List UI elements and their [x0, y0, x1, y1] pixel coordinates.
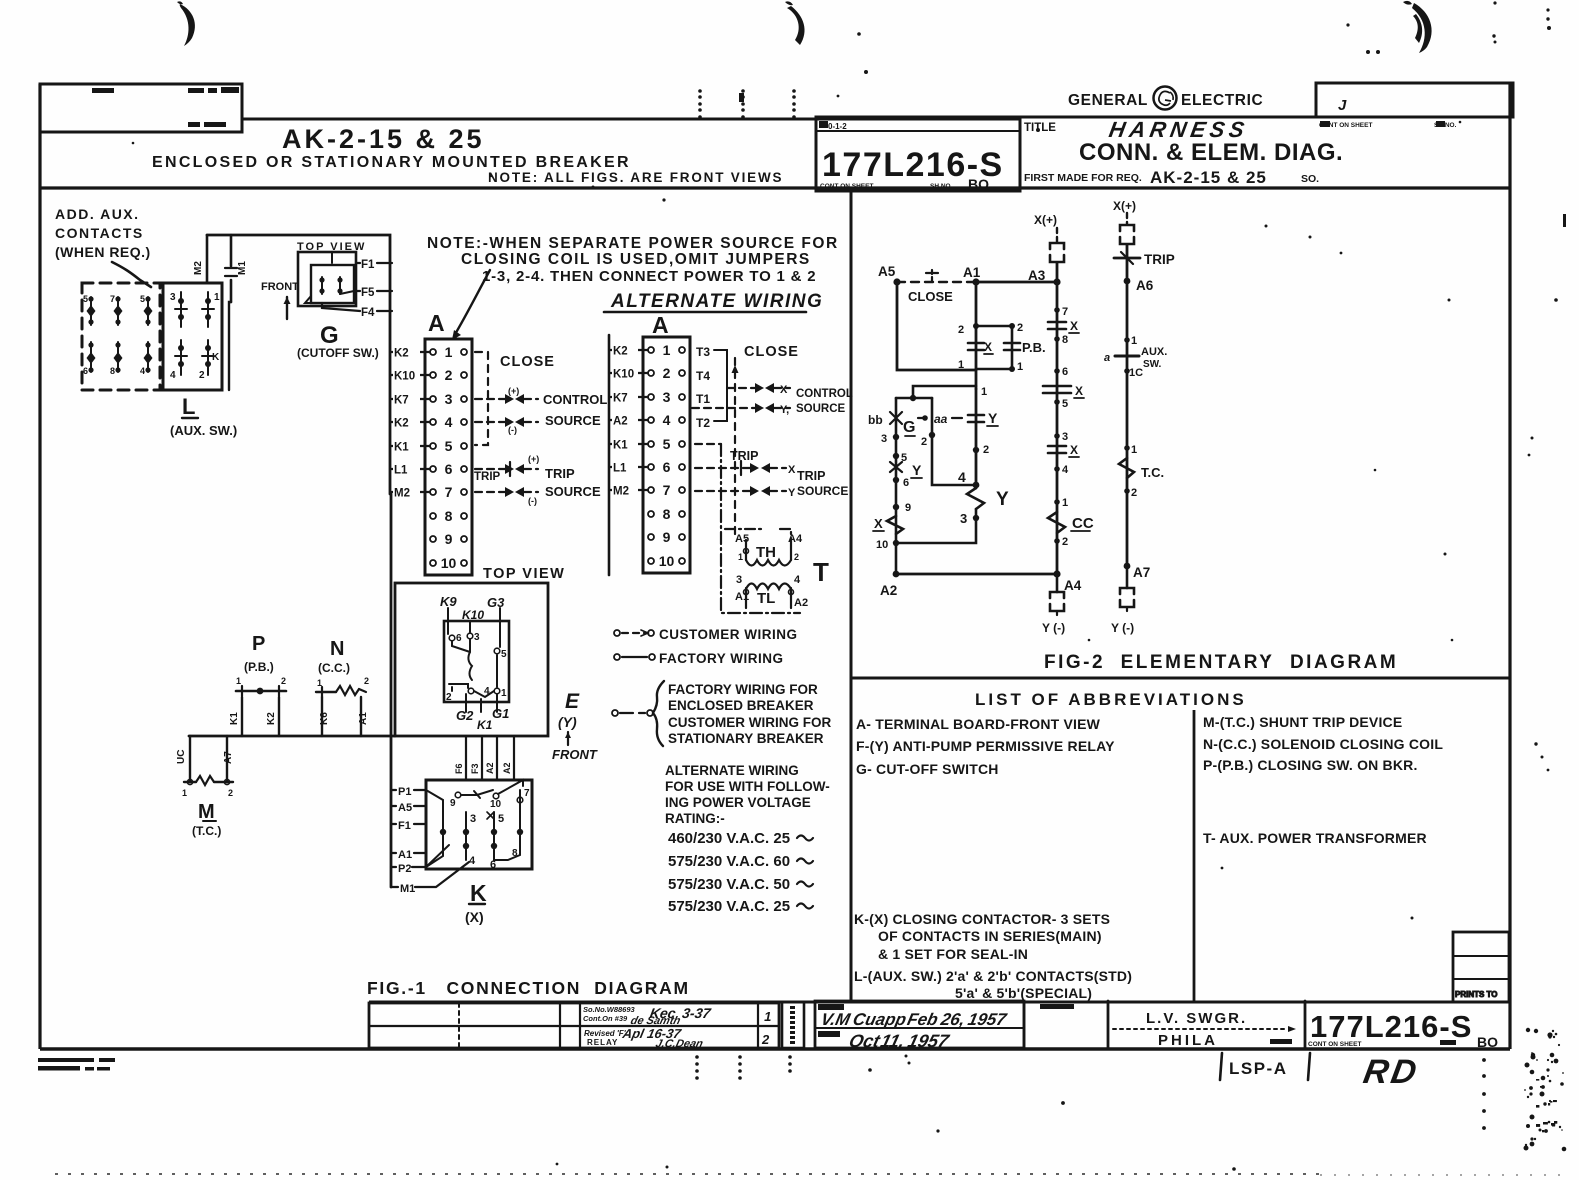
svg-text:M2: M2 — [613, 486, 629, 498]
svg-text:Y: Y — [988, 410, 998, 426]
svg-text:LIST OF ABBREVIATIONS: LIST OF ABBREVIATIONS — [975, 690, 1247, 709]
svg-text:ADD. AUX.: ADD. AUX. — [55, 206, 140, 222]
svg-text:K10: K10 — [613, 369, 634, 381]
svg-text:RELAY: RELAY — [587, 1038, 618, 1047]
middle rail down from A3 — [1056, 282, 1059, 574]
signature box — [815, 1001, 1024, 1048]
svg-text:A2: A2 — [502, 762, 512, 774]
main rail A1 down — [975, 282, 978, 389]
svg-text:1: 1 — [182, 788, 187, 798]
svg-text:6: 6 — [663, 459, 671, 475]
control line t3 — [475, 398, 538, 400]
svg-text:ALTERNATE WIRING: ALTERNATE WIRING — [665, 763, 799, 778]
bottom wire A2 to A4 — [896, 573, 1057, 576]
L box contact column 2 — [199, 292, 220, 381]
svg-text:G1: G1 — [492, 706, 509, 721]
left bus vertical continues — [390, 494, 393, 887]
svg-text:G3: G3 — [487, 595, 505, 610]
svg-text:A5: A5 — [398, 802, 412, 814]
svg-text:X: X — [780, 384, 788, 396]
svg-text:T2: T2 — [696, 416, 710, 430]
source line t4 — [475, 421, 538, 423]
svg-text:1: 1 — [1131, 335, 1137, 347]
svg-text:K-(X) CLOSING CONTACTOR- 3 SET: K-(X) CLOSING CONTACTOR- 3 SETS — [854, 911, 1110, 927]
K9 K10 G3 labels — [440, 594, 505, 622]
trip line t6 — [475, 468, 538, 470]
aux contact column 1 — [83, 294, 96, 376]
svg-text:ALTERNATE WIRING: ALTERNATE WIRING — [610, 291, 823, 312]
svg-text:AK-2-15 & 25: AK-2-15 & 25 — [1150, 168, 1267, 187]
svg-text:K1: K1 — [229, 712, 240, 725]
svg-text:(C.C.): (C.C.) — [318, 661, 350, 675]
terminal 2 — [430, 372, 436, 378]
svg-text:7: 7 — [663, 482, 671, 498]
svg-text:CONT ON SHEET: CONT ON SHEET — [1308, 1041, 1361, 1048]
svg-text:CLOSE: CLOSE — [500, 354, 555, 370]
svg-text:CONTROL: CONTROL — [796, 388, 853, 400]
svg-text:L.V. SWGR.: L.V. SWGR. — [1146, 1010, 1247, 1027]
terminal 3 — [648, 394, 654, 400]
wire K10 to terminal 2 — [609, 372, 648, 374]
svg-text:1: 1 — [663, 342, 671, 358]
svg-text:CLOSE: CLOSE — [744, 344, 799, 360]
svg-text:4: 4 — [1062, 464, 1069, 476]
svg-text:N-(C.C.) SOLENOID CLOSING COIL: N-(C.C.) SOLENOID CLOSING COIL — [1203, 736, 1443, 752]
svg-text:575/230 V.A.C. 25: 575/230 V.A.C. 25 — [668, 898, 790, 915]
aux contact column 2 — [110, 294, 123, 376]
svg-text:SW.: SW. — [1143, 359, 1162, 370]
svg-text:TRIP: TRIP — [474, 471, 501, 483]
svg-text:2: 2 — [983, 444, 989, 456]
svg-text:(AUX. SW.): (AUX. SW.) — [170, 423, 237, 438]
svg-text:X: X — [1070, 443, 1078, 457]
handwritten revision entries — [620, 1005, 771, 1050]
printed in usa smudges — [38, 1058, 115, 1071]
svg-text:FOR USE WITH FOLLOW-: FOR USE WITH FOLLOW- — [665, 779, 830, 794]
svg-text:2: 2 — [1017, 322, 1023, 334]
terminal 1 — [430, 349, 436, 355]
svg-text:(-): (-) — [508, 425, 517, 435]
y source dashed — [692, 407, 790, 409]
svg-text:TRIP: TRIP — [1144, 252, 1175, 267]
svg-text:2: 2 — [921, 436, 927, 448]
svg-text:M1: M1 — [400, 883, 415, 895]
svg-text:CLOSE: CLOSE — [908, 289, 953, 304]
svg-text:7: 7 — [524, 788, 530, 799]
wire K7 to terminal 3 — [609, 396, 648, 398]
svg-text:SH NO.: SH NO. — [930, 183, 953, 190]
svg-text:CUSTOMER WIRING FOR: CUSTOMER WIRING FOR — [668, 715, 831, 730]
svg-text:2: 2 — [445, 367, 453, 383]
svg-text:M2: M2 — [394, 488, 410, 500]
P pushbutton symbol — [229, 633, 286, 736]
svg-text:K10: K10 — [394, 371, 415, 383]
svg-text:4: 4 — [958, 469, 966, 485]
svg-text:P: P — [252, 633, 265, 655]
svg-text:T1: T1 — [696, 392, 710, 406]
svg-text:177L216-S: 177L216-S — [1310, 1009, 1472, 1044]
TL winding — [735, 574, 808, 609]
wire A5 down loop — [897, 282, 976, 370]
svg-text:NOTE: ALL FIGS. ARE FRONT VIEW: NOTE: ALL FIGS. ARE FRONT VIEWS — [488, 170, 783, 185]
terminal 3 — [430, 396, 436, 402]
dashed box add aux contacts — [82, 283, 160, 390]
svg-text:6: 6 — [445, 461, 453, 477]
svg-text:UC: UC — [176, 750, 187, 764]
svg-text:3: 3 — [170, 292, 176, 303]
svg-text:6: 6 — [1062, 366, 1068, 378]
svg-text:G- CUT-OFF SWITCH: G- CUT-OFF SWITCH — [856, 761, 999, 777]
G loop — [913, 386, 976, 398]
svg-text:F6: F6 — [454, 763, 464, 774]
svg-text:bb: bb — [868, 413, 883, 427]
svg-text:Y,: Y, — [780, 404, 789, 416]
wire A2 to terminal 4 — [609, 419, 648, 421]
svg-text:7: 7 — [445, 484, 453, 500]
svg-text:TL: TL — [757, 590, 775, 607]
svg-text:1: 1 — [981, 386, 987, 398]
svg-text:A1: A1 — [358, 712, 369, 725]
svg-text:7: 7 — [1062, 306, 1068, 318]
G cutoff switch top view — [261, 241, 392, 360]
wire K2 to terminal 4 — [390, 421, 430, 423]
svg-text:X: X — [984, 340, 992, 354]
svg-text:ING POWER VOLTAGE: ING POWER VOLTAGE — [665, 795, 811, 810]
svg-text:M: M — [198, 801, 215, 823]
svg-text:2: 2 — [228, 788, 233, 798]
svg-text:10: 10 — [441, 555, 457, 571]
F1 F5 F4 leads — [356, 262, 392, 264]
svg-text:460/230 V.A.C. 25: 460/230 V.A.C. 25 — [668, 830, 790, 847]
connector brackets middle top — [1050, 243, 1064, 249]
svg-text:5: 5 — [1062, 398, 1068, 410]
leader arrow to dashed box — [112, 262, 151, 287]
svg-text:4: 4 — [140, 366, 145, 376]
wire K1 to terminal 5 — [609, 443, 648, 445]
close dashed link A5-A1 — [897, 281, 976, 283]
svg-text:Cont.On #39: Cont.On #39 — [583, 1014, 628, 1023]
svg-text:CONN. & ELEM. DIAG.: CONN. & ELEM. DIAG. — [1079, 139, 1343, 166]
svg-text:BO: BO — [968, 176, 989, 192]
svg-text:FRONT: FRONT — [552, 747, 598, 762]
svg-text:4: 4 — [663, 412, 671, 428]
inner loop — [932, 398, 976, 485]
svg-text:(X): (X) — [465, 909, 484, 925]
revision table — [369, 1003, 779, 1048]
svg-text:1: 1 — [763, 1009, 771, 1024]
svg-text:K: K — [470, 880, 487, 906]
svg-text:Y: Y — [788, 487, 796, 499]
L box contact column 1 — [170, 292, 187, 381]
svg-text:F3: F3 — [470, 763, 480, 774]
svg-text:TRIP: TRIP — [797, 469, 825, 483]
svg-text:M-(T.C.) SHUNT TRIP DEVICE: M-(T.C.) SHUNT TRIP DEVICE — [1203, 714, 1402, 730]
svg-text:A1: A1 — [398, 849, 412, 861]
svg-text:2: 2 — [1062, 536, 1068, 548]
terminal 10 — [648, 558, 654, 564]
svg-text:SOURCE: SOURCE — [545, 484, 601, 499]
terminal 9 — [648, 534, 654, 540]
svg-text:10: 10 — [490, 799, 502, 810]
svg-text:SO.: SO. — [1301, 173, 1319, 185]
svg-text:F1: F1 — [398, 820, 411, 832]
svg-text:L-(AUX. SW.) 2'a' & 2'b' CONTA: L-(AUX. SW.) 2'a' & 2'b' CONTACTS(STD) — [854, 968, 1132, 984]
svg-text:1: 1 — [445, 344, 453, 360]
svg-text:A7: A7 — [1133, 565, 1150, 580]
svg-text:1C: 1C — [1129, 367, 1143, 379]
wire K10 to terminal 2 — [390, 374, 430, 376]
svg-text:CC: CC — [1072, 515, 1094, 532]
svg-text:L1: L1 — [394, 465, 408, 477]
T bracket — [714, 350, 727, 421]
svg-text:FRONT: FRONT — [261, 281, 299, 293]
svg-text:1: 1 — [1062, 497, 1068, 509]
svg-text:T3: T3 — [696, 345, 710, 359]
svg-text:X: X — [874, 516, 883, 531]
E inner box — [444, 621, 509, 702]
svg-text:RATING:-: RATING:- — [665, 811, 725, 826]
svg-text:L1: L1 — [613, 463, 627, 475]
aux contact column 3 — [140, 294, 153, 376]
wire M1 with break — [230, 235, 233, 302]
bottom connector middle — [1056, 574, 1059, 592]
source line t7 — [475, 491, 538, 493]
svg-text:K9: K9 — [440, 594, 457, 609]
CC coil — [1048, 512, 1065, 533]
svg-text:8: 8 — [110, 366, 115, 376]
svg-text:1: 1 — [1131, 444, 1137, 456]
svg-text:Y: Y — [912, 462, 922, 478]
svg-text:Revised 'F': Revised 'F' — [584, 1029, 627, 1038]
svg-text:P2: P2 — [398, 863, 411, 875]
svg-text:6: 6 — [456, 633, 462, 644]
middle rail top dashed — [1056, 228, 1058, 242]
svg-text:E: E — [565, 690, 580, 713]
svg-text:CONTACTS: CONTACTS — [55, 225, 144, 241]
svg-text:10: 10 — [876, 539, 888, 551]
svg-text:SOURCE: SOURCE — [796, 403, 846, 415]
wires from E box down to K box — [466, 736, 514, 780]
svg-text:A: A — [428, 310, 445, 336]
svg-text:A5: A5 — [735, 533, 749, 545]
K left lead labels — [391, 790, 469, 887]
svg-text:So.No.W88693: So.No.W88693 — [583, 1005, 636, 1014]
E inner wiring — [446, 608, 507, 712]
svg-text:NOTE:-WHEN SEPARATE POWER SOUR: NOTE:-WHEN SEPARATE POWER SOURCE FOR — [427, 235, 839, 252]
svg-text:(T.C.): (T.C.) — [192, 824, 221, 838]
svg-text:F1: F1 — [361, 259, 375, 271]
main bus horizontal — [189, 735, 395, 738]
T3 T4 T1 T2 labels — [696, 345, 710, 430]
svg-text:K2: K2 — [394, 418, 409, 430]
svg-text:P-(P.B.) CLOSING SW. ON BKR.: P-(P.B.) CLOSING SW. ON BKR. — [1203, 757, 1418, 773]
svg-text:P.B.: P.B. — [1022, 340, 1046, 355]
svg-text:G: G — [320, 322, 339, 349]
svg-text:9: 9 — [445, 531, 453, 547]
svg-text:1: 1 — [1017, 361, 1023, 373]
svg-text:2: 2 — [794, 552, 799, 562]
svg-text:CONTROL: CONTROL — [543, 392, 607, 407]
svg-text:P1: P1 — [398, 786, 411, 798]
svg-text:K2: K2 — [394, 348, 409, 360]
terminal 7 — [648, 487, 654, 493]
svg-text:Y: Y — [996, 489, 1009, 510]
svg-text:5: 5 — [140, 294, 145, 304]
signature handwriting — [819, 1009, 1009, 1051]
scan crescents top-right — [1412, 3, 1432, 53]
svg-text:2: 2 — [199, 370, 205, 381]
svg-text:A4: A4 — [788, 533, 803, 545]
wire K2 to terminal 1 — [390, 351, 430, 353]
wire A1-A3 — [976, 281, 1057, 284]
svg-text:575/230 V.A.C. 60: 575/230 V.A.C. 60 — [668, 853, 790, 870]
svg-text:K1: K1 — [613, 440, 628, 452]
M shunt trip symbol — [176, 736, 234, 838]
svg-text:4: 4 — [170, 370, 176, 381]
node A4 — [1053, 570, 1060, 577]
svg-text:575/230 V.A.C. 50: 575/230 V.A.C. 50 — [668, 876, 790, 893]
svg-text:3: 3 — [881, 433, 887, 445]
t5 dash — [695, 443, 721, 445]
svg-text:5'a' & 5'b'(SPECIAL): 5'a' & 5'b'(SPECIAL) — [955, 985, 1092, 1001]
wire M2 up from L box — [206, 235, 209, 283]
svg-text:8: 8 — [1062, 334, 1068, 346]
svg-text:4: 4 — [445, 414, 453, 430]
terminal 9 — [430, 536, 436, 542]
svg-text:F5: F5 — [361, 287, 375, 299]
svg-text:A7: A7 — [223, 751, 234, 764]
wire K7 to terminal 3 — [390, 398, 430, 400]
PB branch — [976, 326, 1012, 369]
svg-text:9: 9 — [450, 798, 456, 809]
svg-text:8: 8 — [663, 506, 671, 522]
faint scanner dotted baseline — [55, 1174, 1560, 1175]
scan crescent top-middle — [787, 6, 805, 45]
svg-text:2: 2 — [1131, 487, 1137, 499]
svg-text:5: 5 — [498, 813, 504, 825]
scan crescent top-left — [180, 4, 195, 46]
svg-text:3: 3 — [1062, 431, 1068, 443]
svg-text:ELECTRIC: ELECTRIC — [1181, 92, 1263, 109]
svg-text:BO: BO — [1477, 1034, 1498, 1050]
svg-text:FACTORY WIRING: FACTORY WIRING — [659, 651, 784, 666]
svg-text:5: 5 — [663, 436, 671, 452]
terminal 10 — [430, 560, 436, 566]
Y coil — [967, 488, 984, 509]
top wire run — [207, 235, 390, 494]
legend customer wiring — [614, 627, 798, 642]
legend factory wiring — [614, 651, 784, 666]
svg-text:L: L — [182, 394, 195, 419]
svg-text:2: 2 — [761, 1032, 770, 1047]
svg-text:T4: T4 — [696, 369, 710, 383]
wire M2 to terminal 7 — [609, 489, 648, 491]
svg-text:CLOSING COIL IS USED,OMIT JUMP: CLOSING COIL IS USED,OMIT JUMPERS — [461, 251, 811, 268]
svg-text:K6: K6 — [319, 712, 330, 725]
svg-text:1: 1 — [214, 292, 220, 303]
svg-text:a: a — [1104, 352, 1110, 364]
wire L1 to terminal 6 — [609, 466, 648, 468]
svg-text:J.C.Dean: J.C.Dean — [654, 1038, 704, 1050]
wire M2 to terminal 7 — [390, 491, 430, 493]
svg-text:F4: F4 — [361, 307, 375, 319]
svg-text:RD: RD — [1361, 1053, 1423, 1091]
dwg number box — [1304, 1001, 1307, 1048]
TH winding — [735, 533, 803, 566]
svg-text:1: 1 — [738, 552, 743, 562]
wire K1 to terminal 5 — [390, 445, 430, 447]
svg-text:1: 1 — [958, 359, 964, 371]
svg-text:X(+): X(+) — [1113, 199, 1136, 213]
svg-text:X: X — [788, 464, 796, 476]
terminal 2 — [648, 370, 654, 376]
svg-text:OF CONTACTS IN SERIES(MAIN): OF CONTACTS IN SERIES(MAIN) — [878, 928, 1102, 944]
node A7 — [1124, 563, 1131, 570]
y source t7 right — [695, 490, 786, 492]
svg-text:(CUTOFF SW.): (CUTOFF SW.) — [297, 346, 379, 360]
svg-text:4: 4 — [469, 855, 476, 867]
svg-text:A1: A1 — [963, 265, 981, 280]
svg-text:(-): (-) — [528, 496, 537, 506]
svg-text:(P.B.): (P.B.) — [244, 660, 274, 674]
svg-text:TH: TH — [756, 544, 776, 561]
stripe box — [782, 1002, 804, 1048]
border frame — [38, 84, 41, 1049]
voltage ratings — [668, 830, 790, 915]
svg-text:Y (-): Y (-) — [1042, 621, 1065, 635]
svg-text:5: 5 — [501, 649, 507, 660]
L label — [170, 394, 237, 438]
svg-text:K: K — [212, 352, 220, 363]
NOTE text — [427, 235, 839, 285]
svg-text:TRIP: TRIP — [545, 466, 575, 481]
svg-text:V.M Cuapp Feb 26, 1957: V.M Cuapp Feb 26, 1957 — [819, 1009, 1009, 1029]
svg-text:7: 7 — [110, 294, 115, 304]
svg-text:9: 9 — [663, 529, 671, 545]
svg-text:1: 1 — [501, 688, 507, 699]
node A3 — [1053, 278, 1060, 285]
terminal 4 — [430, 419, 436, 425]
close dashed bracket — [475, 352, 488, 445]
x control dashed — [727, 387, 790, 389]
svg-text:A5: A5 — [878, 264, 896, 279]
svg-text:Oct 11, 1957: Oct 11, 1957 — [847, 1030, 952, 1051]
svg-text:AUX.: AUX. — [1141, 346, 1167, 358]
N closing coil symbol — [316, 638, 369, 736]
svg-text:(+): (+) — [508, 386, 519, 396]
svg-text:X(+): X(+) — [1034, 213, 1057, 227]
terminal 8 — [648, 511, 654, 517]
E (Y) label — [552, 690, 598, 762]
trip contact — [1114, 257, 1140, 260]
svg-text:M1: M1 — [237, 261, 248, 275]
svg-text:CUSTOMER WIRING: CUSTOMER WIRING — [659, 627, 798, 642]
svg-text:G: G — [903, 419, 915, 436]
svg-text:G2: G2 — [456, 708, 474, 723]
X contact main rail — [968, 343, 984, 350]
smudge text in top-left box — [92, 88, 114, 93]
svg-text:2: 2 — [958, 324, 964, 336]
svg-text:(+): (+) — [528, 454, 539, 464]
svg-text:3: 3 — [960, 511, 967, 526]
svg-text:8: 8 — [445, 508, 453, 524]
node A1 — [972, 278, 979, 285]
svg-text:FIG.-1 CONNECTION DIAGRAM: FIG.-1 CONNECTION DIAGRAM — [367, 978, 690, 998]
terminal 5 — [430, 443, 436, 449]
svg-text:A2: A2 — [613, 416, 628, 428]
svg-text:LSP-A: LSP-A — [1229, 1059, 1288, 1078]
svg-text:X: X — [1075, 384, 1083, 398]
